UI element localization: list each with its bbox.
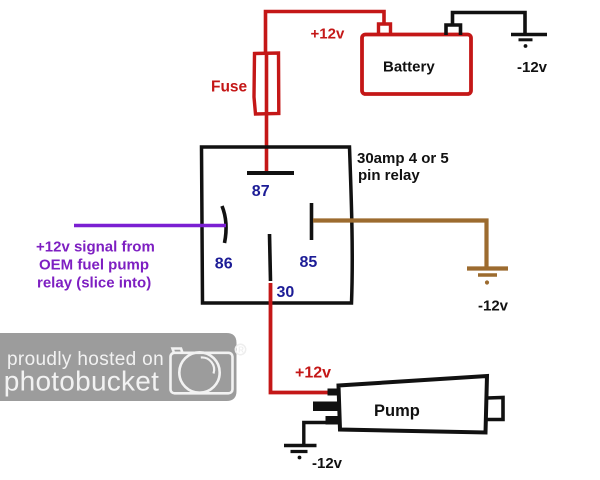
svg-text:relay (slice into): relay (slice into) <box>37 275 151 292</box>
svg-text:+12v: +12v <box>295 365 331 382</box>
relay pin 86 contact <box>222 206 226 243</box>
svg-text:+12v signal from: +12v signal from <box>36 239 155 256</box>
svg-text:Pump: Pump <box>374 402 420 420</box>
ground (battery -12v) <box>511 35 547 48</box>
svg-text:photobucket: photobucket <box>4 366 159 397</box>
photobucket camera icon <box>171 349 233 394</box>
svg-text:-12v: -12v <box>478 298 509 315</box>
pump M1 body <box>339 376 488 433</box>
wire: pump ground tab to ground <box>304 423 326 445</box>
svg-text:30amp 4 or 5: 30amp 4 or 5 <box>357 150 449 167</box>
wire: purple +12v signal into pin 86 <box>74 224 226 228</box>
svg-text:30: 30 <box>277 284 295 301</box>
wire: red from pin 30 down to pump <box>271 283 330 393</box>
svg-text:-12v: -12v <box>312 455 343 472</box>
svg-text:pin relay: pin relay <box>358 167 420 184</box>
svg-text:-12v: -12v <box>517 59 548 76</box>
photobucket watermark bar <box>0 333 237 401</box>
relay pin 87 contact bar <box>247 171 294 175</box>
svg-text:87: 87 <box>252 183 270 200</box>
wire: brown from pin 85 to ground <box>313 221 487 268</box>
pump connector tab 3 (bottom, ground) <box>326 416 341 425</box>
battery B1 body <box>362 35 471 95</box>
battery positive terminal <box>379 24 391 35</box>
photobucket registered trademark symbol <box>235 344 245 354</box>
fuse F1 <box>254 53 279 114</box>
wire: red through fuse down to relay pin 87 <box>265 52 269 171</box>
pump outlet nub <box>486 398 503 420</box>
svg-text:Battery: Battery <box>383 59 435 76</box>
svg-text:86: 86 <box>215 256 233 273</box>
pump connector tab 2 (middle) <box>313 402 339 412</box>
wire: red +12v feed from fuse top to battery positive <box>266 12 385 55</box>
ground (relay -12v, brown) <box>467 269 508 285</box>
battery negative terminal <box>446 25 461 35</box>
pump connector tab 1 (top, +12v) <box>328 389 341 396</box>
relay pin 85 contact <box>310 203 314 240</box>
ground (pump -12v) <box>284 446 317 460</box>
svg-text:85: 85 <box>300 254 318 271</box>
svg-text:Fuse: Fuse <box>211 79 248 96</box>
relay pin 30 contact <box>270 234 271 281</box>
svg-text:+12v: +12v <box>311 26 345 43</box>
svg-text:R: R <box>238 346 244 355</box>
svg-text:OEM fuel pump: OEM fuel pump <box>39 257 149 274</box>
wire: battery negative to ground <box>453 13 526 34</box>
relay K1 body <box>202 147 353 303</box>
